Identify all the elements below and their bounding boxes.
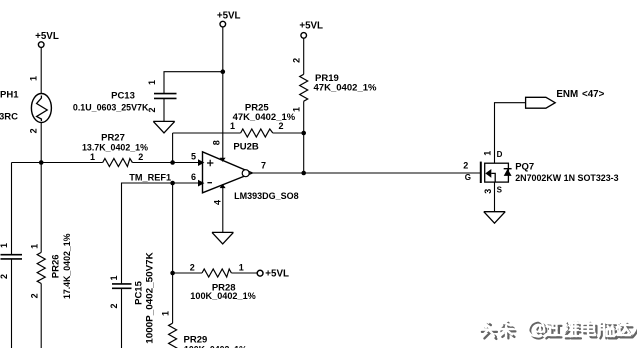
capacitor PC13	[73, 90, 177, 113]
svg-text:PR26: PR26	[51, 254, 62, 278]
resistor PR29	[160, 273, 247, 348]
power +5VL (top-right)	[299, 20, 323, 38]
wire TM_REF1 to op-amp pin 6	[122, 183, 200, 284]
svg-text:1: 1	[160, 311, 170, 316]
wire +5VL to PR19	[303, 38, 305, 74]
svg-text:100K_0402_1%: 100K_0402_1%	[184, 344, 247, 348]
svg-text:+5VL: +5VL	[217, 10, 241, 21]
svg-text:5: 5	[191, 152, 196, 162]
node PR25/+input	[170, 160, 175, 165]
svg-text:2: 2	[109, 303, 119, 308]
wire junction to PC13	[164, 72, 223, 94]
svg-text:1: 1	[147, 80, 157, 85]
node divider PR28/PR29/PC15	[170, 271, 175, 276]
wire +5VL rail down to op-amp pin 8	[222, 27, 224, 160]
ground (below PQ7)	[484, 212, 505, 224]
thermistor PH1	[0, 90, 51, 123]
svg-text:<47>: <47>	[582, 89, 605, 100]
svg-text:7: 7	[261, 160, 266, 170]
svg-text:ENM: ENM	[556, 89, 578, 100]
svg-text:2: 2	[0, 274, 9, 279]
svg-text:1: 1	[239, 262, 244, 272]
node PH1/+input	[39, 160, 44, 165]
svg-text:1: 1	[29, 244, 39, 249]
off-page connector ENM <47>	[526, 89, 605, 108]
svg-text:1: 1	[90, 152, 95, 162]
capacitor (left edge, partially visible)	[0, 163, 22, 348]
svg-text:1000P_0402_50V7K: 1000P_0402_50V7K	[145, 252, 156, 344]
node output/pullup	[301, 171, 306, 176]
svg-text:0.1U_0603_25V7K: 0.1U_0603_25V7K	[73, 102, 149, 113]
svg-text:4: 4	[212, 200, 222, 205]
wire PQ7 drain to ENM	[495, 103, 526, 164]
svg-text:2: 2	[138, 152, 143, 162]
svg-text:2: 2	[28, 128, 38, 133]
wire PR27 to op-amp pin 5	[132, 162, 199, 164]
svg-text:S: S	[497, 186, 503, 195]
svg-text:PH1: PH1	[0, 90, 19, 101]
svg-text:2: 2	[292, 58, 302, 63]
watermark 头条 @迅维电脑达人	[480, 320, 637, 339]
svg-text:1: 1	[28, 76, 38, 81]
svg-text:2: 2	[463, 161, 468, 171]
svg-text:2: 2	[147, 107, 157, 112]
transistor PQ7 (N-MOSFET)	[463, 150, 618, 195]
wire PC13 to ground	[163, 98, 165, 121]
wire PR19 to PR25 node	[303, 101, 305, 133]
op-amp U PU2B	[191, 140, 299, 205]
svg-text:2: 2	[190, 262, 195, 272]
wire PH1 to +input node	[40, 123, 42, 163]
svg-text:6: 6	[191, 172, 196, 182]
svg-text:1: 1	[109, 275, 119, 280]
svg-text:PQ7: PQ7	[515, 162, 534, 173]
svg-text:8: 8	[211, 140, 221, 145]
wire TM_REF1 down to divider node	[172, 183, 174, 273]
svg-text:+5VL: +5VL	[35, 31, 59, 42]
svg-text:1: 1	[0, 243, 9, 248]
resistor PR28	[173, 262, 258, 302]
svg-text:2: 2	[278, 121, 283, 131]
power +5VL (top-center)	[217, 10, 241, 27]
node TM_REF1/divider	[170, 181, 175, 186]
svg-text:1: 1	[230, 121, 235, 131]
node PR19/PR25	[301, 131, 306, 136]
svg-text:2N7002KW 1N SOT323-3: 2N7002KW 1N SOT323-3	[515, 173, 618, 184]
svg-text:G: G	[465, 173, 471, 182]
svg-text:+5VL: +5VL	[265, 268, 289, 279]
capacitor PC15	[109, 252, 156, 348]
wire PQ7 source to ground	[494, 182, 496, 212]
resistor PR26	[29, 163, 73, 348]
svg-text:2: 2	[29, 293, 39, 298]
svg-text:+5VL: +5VL	[299, 20, 323, 31]
wire op-amp output to PQ7 gate	[253, 172, 480, 174]
wire op-amp pin 4 to ground	[222, 185, 224, 232]
resistor PR19	[300, 73, 377, 101]
svg-text:1: 1	[483, 151, 493, 156]
svg-text:LM393DG_SO8: LM393DG_SO8	[234, 191, 299, 202]
svg-text:100K_0402_1%: 100K_0402_1%	[190, 291, 256, 302]
svg-text:47K_0402_1%: 47K_0402_1%	[233, 112, 296, 123]
wire +input net (left)	[12, 162, 103, 164]
wire PR25 pin1 leg down to +input node	[172, 133, 174, 163]
svg-text:PU2B: PU2B	[233, 141, 258, 152]
svg-text:3: 3	[483, 189, 493, 194]
resistor PR25	[173, 103, 304, 137]
svg-text:TM_REF1: TM_REF1	[129, 173, 171, 184]
ground (below PC13)	[153, 121, 174, 132]
svg-text:47K_0402_1%: 47K_0402_1%	[314, 82, 378, 93]
svg-text:PC15: PC15	[134, 280, 145, 304]
wire +5VL to thermistor PH1	[40, 47, 42, 93]
resistor PR27	[82, 133, 149, 167]
ground (below op-amp)	[212, 232, 233, 244]
svg-text:PC13: PC13	[111, 90, 135, 101]
svg-text:17.4K_0402_1%: 17.4K_0402_1%	[62, 233, 73, 299]
wire PR25 node down to output node	[303, 133, 305, 173]
node +5VL/PC13 junction	[221, 69, 226, 74]
svg-text:D: D	[497, 150, 503, 159]
power +5VL (top-left)	[35, 31, 59, 47]
svg-text:3RC: 3RC	[0, 112, 18, 123]
power +5VL (PR28 terminal)	[257, 268, 289, 279]
